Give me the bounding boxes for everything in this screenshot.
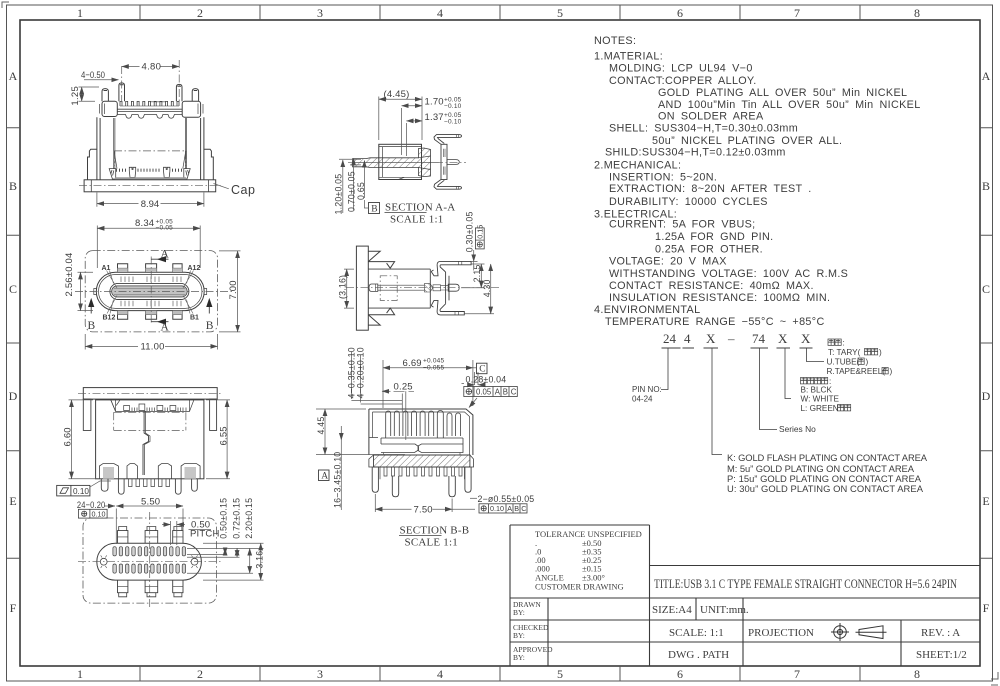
front view latch posts bbox=[129, 167, 135, 177]
section B-B hatched base bbox=[374, 455, 470, 467]
svg-text:SHEET:1/2: SHEET:1/2 bbox=[916, 649, 967, 661]
rear view bottom feet bbox=[99, 464, 200, 479]
side view top chamfer bbox=[368, 251, 380, 261]
dim 0.28 bbox=[462, 372, 479, 385]
top view end notches bbox=[94, 289, 207, 295]
svg-text:5: 5 bbox=[557, 6, 563, 20]
svg-text:SHILD:SUS304−H,T=0.12±0.03mm: SHILD:SUS304−H,T=0.12±0.03mm bbox=[605, 147, 786, 159]
svg-text:6.69: 6.69 bbox=[403, 358, 422, 369]
top view pin leader lines bbox=[107, 271, 194, 314]
svg-text:X: X bbox=[706, 331, 716, 346]
datum A box bbox=[319, 470, 330, 481]
dim 2.15 bbox=[461, 264, 485, 288]
svg-text:A: A bbox=[321, 472, 328, 482]
svg-text:MOLDING: LCP UL94 V−0: MOLDING: LCP UL94 V−0 bbox=[609, 63, 753, 75]
svg-text:2: 2 bbox=[197, 667, 203, 681]
svg-text:4: 4 bbox=[437, 667, 443, 681]
front view base plate bbox=[84, 180, 216, 192]
plating option list bbox=[727, 452, 928, 494]
svg-text:−0.10: −0.10 bbox=[444, 118, 462, 125]
dim 6.69 bbox=[383, 360, 473, 408]
side view body outline bbox=[368, 269, 430, 308]
svg-text:1: 1 bbox=[77, 6, 83, 20]
front view cap tapered sides bbox=[114, 151, 186, 169]
dim (4.45) bbox=[379, 97, 422, 141]
rear view main body bbox=[96, 400, 204, 479]
projection symbol circle-cross bbox=[831, 623, 887, 641]
svg-text:B: B bbox=[503, 387, 508, 396]
top view tongue slot bbox=[112, 286, 188, 297]
section A-A dimensions bbox=[339, 97, 422, 214]
position frame 0.10 ABC bbox=[479, 504, 527, 513]
dim 4.30 bbox=[464, 313, 494, 315]
svg-text:): ) bbox=[890, 367, 893, 376]
top view pin labels bbox=[102, 265, 201, 322]
position frame 0.05 ABC bbox=[464, 387, 518, 397]
svg-text:4: 4 bbox=[437, 6, 443, 20]
svg-text:CONTACT RESISTANCE: 40mΩ MAX.: CONTACT RESISTANCE: 40mΩ MAX. bbox=[609, 280, 814, 292]
svg-text:2.56±0.04: 2.56±0.04 bbox=[64, 253, 75, 297]
dim 11.00 bbox=[85, 334, 217, 350]
section B-B dimensions bbox=[316, 352, 483, 514]
svg-text:2.15: 2.15 bbox=[472, 264, 482, 282]
part number underlines bbox=[661, 348, 824, 455]
dim 0.30 bbox=[471, 260, 477, 262]
top view dim texts bbox=[64, 218, 239, 352]
rear view center divider with zigzag bbox=[143, 411, 149, 475]
side view dimensions bbox=[344, 250, 494, 314]
svg-text:0.25A FOR OTHER.: 0.25A FOR OTHER. bbox=[655, 244, 763, 256]
zone tick lines right bbox=[980, 128, 993, 559]
svg-text:A: A bbox=[507, 504, 512, 513]
svg-text:04-24: 04-24 bbox=[632, 395, 653, 404]
svg-text:C: C bbox=[982, 282, 990, 296]
dim 1.70 bbox=[401, 108, 403, 155]
svg-text:C: C bbox=[479, 365, 485, 375]
section arrow B left bbox=[90, 305, 92, 314]
svg-text:24: 24 bbox=[663, 331, 677, 346]
svg-text:): ) bbox=[866, 358, 869, 367]
dropline from X2 to color list bbox=[785, 348, 791, 399]
corner mark top-left bbox=[2, 2, 9, 8]
svg-text:(4.45): (4.45) bbox=[384, 89, 410, 100]
rear view top bar (cap) bbox=[83, 388, 217, 400]
svg-text:A: A bbox=[161, 322, 170, 334]
dim 1.25 bbox=[81, 87, 83, 101]
side view centerline bbox=[346, 287, 500, 289]
svg-text:50u” NICKEL PLATING OVER ALL.: 50u” NICKEL PLATING OVER ALL. bbox=[652, 135, 842, 147]
rear view small teeth under body bbox=[129, 479, 170, 487]
front view left outer peg bbox=[102, 89, 108, 102]
position frame under 24=0.20 bbox=[78, 509, 107, 518]
rear view cap side tabs bbox=[83, 399, 216, 430]
dim 2.56 bbox=[78, 272, 94, 310]
svg-text:B: B bbox=[982, 179, 990, 193]
notes text block bbox=[594, 35, 921, 328]
svg-text:A: A bbox=[9, 69, 18, 83]
dropline from X1 to plating list bbox=[712, 348, 722, 455]
side view top seam with hook bbox=[368, 262, 394, 269]
svg-text:SCALE 1:1: SCALE 1:1 bbox=[405, 537, 458, 549]
bottom view bottom tabs bbox=[118, 580, 184, 597]
dim 8.34 bbox=[97, 226, 200, 269]
dim 6.60 bbox=[69, 400, 97, 479]
rear view dimensions bbox=[69, 400, 231, 479]
dim 6.55 bbox=[206, 400, 230, 479]
section B-B dim texts bbox=[316, 347, 534, 515]
section A-A title bbox=[385, 202, 455, 226]
dim 5.50 bbox=[116, 505, 183, 507]
side view dim texts bbox=[338, 211, 492, 299]
svg-text:4.30: 4.30 bbox=[482, 279, 492, 297]
section B-B terminal comb bbox=[386, 411, 461, 439]
svg-text:Series No: Series No bbox=[779, 424, 816, 434]
svg-text:1.20±0.05: 1.20±0.05 bbox=[334, 174, 344, 215]
svg-text:SIZE:A4: SIZE:A4 bbox=[652, 604, 692, 616]
dim 4.80 bbox=[122, 66, 180, 68]
rear view dim texts bbox=[63, 426, 230, 446]
bottom view centerlines bbox=[78, 512, 222, 608]
front view module lower wavy edge bbox=[117, 115, 182, 119]
right side dims bbox=[187, 548, 264, 573]
svg-text:AND 100u”Min Tin ALL OVER 50u”: AND 100u”Min Tin ALL OVER 50u” Min NICKE… bbox=[658, 99, 921, 111]
section A-A centerline bbox=[348, 162, 466, 164]
section B-B bottom round pins bbox=[372, 467, 471, 497]
bottom view pin row 2 bbox=[113, 564, 116, 573]
svg-text:E: E bbox=[982, 494, 989, 508]
front view end trapezoids bbox=[109, 169, 116, 179]
svg-text:4−0.20±0.10: 4−0.20±0.10 bbox=[356, 347, 366, 398]
rear view bottom legs bbox=[101, 479, 197, 494]
svg-text:3.16: 3.16 bbox=[255, 551, 265, 569]
front view module top teeth bbox=[120, 101, 179, 106]
svg-text:U.TUBE(: U.TUBE( bbox=[827, 358, 860, 367]
svg-text:UNIT:mm.: UNIT:mm. bbox=[700, 604, 749, 616]
dim 1.37 bbox=[405, 123, 407, 156]
svg-text:DURABILITY: 10000 CYCLES: DURABILITY: 10000 CYCLES bbox=[609, 196, 768, 208]
svg-text:0.72±0.15: 0.72±0.15 bbox=[231, 498, 241, 539]
dim 7.50 bbox=[375, 494, 452, 512]
svg-text:F: F bbox=[10, 601, 17, 615]
svg-text:(3.16): (3.16) bbox=[338, 275, 348, 299]
svg-text:R.TAPE&REEL(: R.TAPE&REEL( bbox=[827, 367, 886, 376]
svg-text:0.50±0.15: 0.50±0.15 bbox=[219, 498, 229, 539]
svg-text:8: 8 bbox=[914, 667, 920, 681]
bottom view dim texts bbox=[77, 497, 265, 569]
side view pin shaft bbox=[378, 285, 425, 290]
side view bottom seam with hook bbox=[368, 308, 394, 315]
rear view dash-dot lines bbox=[78, 393, 222, 430]
dim 24=0.20 leader arrow bbox=[104, 505, 115, 507]
svg-text:1.MATERIAL:: 1.MATERIAL: bbox=[594, 51, 663, 63]
svg-text:3: 3 bbox=[317, 667, 323, 681]
section arrow B right bbox=[208, 305, 210, 314]
svg-text:8: 8 bbox=[914, 6, 920, 20]
svg-text:0.10: 0.10 bbox=[490, 504, 504, 513]
svg-text:2−ø0.55±0.05: 2−ø0.55±0.05 bbox=[478, 494, 535, 504]
dropline from 74 to Series No bbox=[760, 348, 778, 430]
svg-text:0.25: 0.25 bbox=[394, 382, 413, 393]
title block lines bbox=[510, 525, 980, 666]
front view right flange bbox=[204, 149, 213, 180]
svg-text:D: D bbox=[9, 389, 18, 403]
svg-text:SCALE 1:1: SCALE 1:1 bbox=[390, 214, 443, 226]
svg-text:DWG . PATH: DWG . PATH bbox=[668, 649, 729, 661]
rear view top inner latches bbox=[111, 400, 194, 412]
size/unit/scale/dwg cells bbox=[652, 604, 967, 661]
front view dash-dot centerlines bbox=[79, 60, 221, 186]
dim 0.50 pitch: extension lines bbox=[170, 521, 176, 545]
svg-text:7.00: 7.00 bbox=[228, 280, 239, 299]
side view bracket top arm bbox=[431, 261, 471, 275]
svg-text:L: GREEN: L: GREEN bbox=[801, 404, 839, 413]
part number heading 24 4 X - 74 X X bbox=[663, 331, 811, 346]
svg-text:C: C bbox=[9, 282, 17, 296]
datum C box bbox=[477, 363, 488, 374]
svg-text:PITCH: PITCH bbox=[190, 529, 220, 540]
svg-text:BY:: BY: bbox=[513, 608, 525, 617]
svg-text:): ) bbox=[879, 348, 882, 357]
flatness leader bbox=[90, 481, 111, 487]
front view right big pin bbox=[176, 84, 182, 101]
svg-text:WITHSTANDING VOLTAGE: 100V AC: WITHSTANDING VOLTAGE: 100V AC R.M.S bbox=[609, 268, 848, 280]
front view top shield module right block bbox=[182, 101, 200, 117]
svg-text:X: X bbox=[801, 331, 811, 346]
svg-text:7: 7 bbox=[794, 667, 800, 681]
svg-text:0.15: 0.15 bbox=[476, 225, 485, 239]
svg-text:X: X bbox=[778, 331, 788, 346]
side view contact pieces bbox=[424, 284, 433, 292]
side view hidden cap dash-dot rect bbox=[380, 276, 397, 301]
svg-text:4: 4 bbox=[684, 331, 691, 346]
svg-text:B: B bbox=[371, 205, 377, 215]
top view outer stadium shell bbox=[96, 272, 204, 310]
svg-text:F: F bbox=[983, 601, 990, 615]
svg-text:1.37: 1.37 bbox=[425, 112, 444, 123]
svg-text:8.94: 8.94 bbox=[141, 199, 160, 210]
svg-text:−0.05: −0.05 bbox=[156, 225, 174, 232]
svg-text:PIN NO:: PIN NO: bbox=[632, 385, 662, 394]
cap leader bbox=[214, 184, 229, 189]
svg-text:B: BLCK: B: BLCK bbox=[801, 386, 833, 395]
top view bottom tabs bbox=[118, 311, 183, 319]
svg-text:SECTION A-A: SECTION A-A bbox=[385, 202, 455, 214]
svg-text:6: 6 bbox=[677, 6, 683, 20]
svg-text:BY:: BY: bbox=[513, 653, 525, 662]
packing list text bbox=[801, 339, 893, 414]
section arrow A top bbox=[151, 259, 168, 322]
svg-text:1: 1 bbox=[77, 667, 83, 681]
section B-B title bbox=[400, 525, 470, 549]
front view right outer peg bbox=[192, 89, 198, 102]
svg-text:74: 74 bbox=[752, 331, 766, 346]
dim (3.16) bbox=[344, 269, 354, 308]
svg-text:7: 7 bbox=[794, 6, 800, 20]
svg-text:5.50: 5.50 bbox=[141, 497, 160, 508]
bottom view top tabs bbox=[118, 527, 184, 544]
svg-text:T: TARY(: T: TARY( bbox=[828, 348, 861, 357]
dim 8.94 bbox=[97, 193, 204, 207]
section B-B outer shell bbox=[369, 409, 473, 455]
svg-text::: : bbox=[843, 339, 845, 348]
svg-text:3: 3 bbox=[317, 6, 323, 20]
section A-A top leg bbox=[434, 135, 462, 145]
projection symbol cone bbox=[856, 626, 887, 639]
CJK pseudo glyphs: 包装 bbox=[828, 339, 834, 345]
svg-text:0.70±0.05: 0.70±0.05 bbox=[346, 171, 356, 212]
side view bottom chamfer bbox=[368, 315, 380, 325]
svg-text:INSERTION: 5~20N.: INSERTION: 5~20N. bbox=[609, 172, 717, 184]
svg-text:6.60: 6.60 bbox=[63, 427, 74, 446]
svg-text:C: C bbox=[521, 504, 526, 513]
绿色 after GREEN bbox=[838, 405, 844, 411]
svg-text:A12: A12 bbox=[188, 265, 201, 272]
bottom view pin row 1 bbox=[113, 547, 186, 574]
svg-text:TEMPERATURE RANGE −55°C ~ +85°: TEMPERATURE RANGE −55°C ~ +85°C bbox=[605, 316, 825, 328]
svg-text:U: 30u” GOLD PLATING ON CONTAC: U: 30u” GOLD PLATING ON CONTACT AREA bbox=[727, 483, 924, 494]
section A-A tongue centerline bbox=[353, 162, 439, 164]
svg-text:0.05: 0.05 bbox=[476, 387, 492, 396]
svg-text:SHELL: SUS304−H,T=0.30±0.03mm: SHELL: SUS304−H,T=0.30±0.03mm bbox=[609, 123, 798, 135]
front view lower teeth dashes bbox=[117, 169, 182, 172]
svg-text:0.65: 0.65 bbox=[356, 182, 366, 200]
svg-text:6: 6 bbox=[677, 667, 683, 681]
svg-text:5: 5 bbox=[557, 667, 563, 681]
svg-text:B1: B1 bbox=[190, 315, 199, 322]
front view left flange bbox=[88, 149, 97, 180]
svg-text:B: B bbox=[88, 320, 96, 332]
svg-text:GOLD PLATING ALL OVER 50u” Min: GOLD PLATING ALL OVER 50u” Min NICKEL bbox=[658, 87, 907, 99]
top view centerlines bbox=[75, 257, 232, 326]
front view top shield module left block bbox=[102, 101, 117, 116]
svg-text:4−0.50: 4−0.50 bbox=[81, 70, 105, 81]
svg-text:1.70: 1.70 bbox=[425, 97, 444, 108]
svg-text:+0.045: +0.045 bbox=[423, 358, 444, 365]
svg-text:−0.10: −0.10 bbox=[444, 103, 462, 110]
svg-text:Cap: Cap bbox=[231, 183, 255, 197]
svg-text:–: – bbox=[727, 331, 735, 346]
盘子 in TARY() bbox=[865, 349, 871, 355]
svg-text:1.25A FOR GND PIN.: 1.25A FOR GND PIN. bbox=[655, 231, 774, 243]
svg-text:0.10: 0.10 bbox=[92, 510, 106, 519]
bottom view dimensions bbox=[104, 506, 264, 580]
side view bracket bottom arm bbox=[431, 300, 464, 315]
section B-B left wall detail bbox=[369, 412, 378, 438]
svg-text:E: E bbox=[9, 494, 16, 508]
svg-text:0.28±0.04: 0.28±0.04 bbox=[466, 374, 507, 384]
svg-text:A: A bbox=[161, 249, 170, 261]
svg-text:D: D bbox=[982, 389, 991, 403]
section A-A center pin bbox=[447, 160, 459, 165]
dims 4-0.35 / 4-0.20 bbox=[351, 401, 402, 405]
svg-text:W: WHITE: W: WHITE bbox=[801, 395, 840, 404]
胶芯颜色 bbox=[801, 378, 807, 384]
left dims 1.20 / 0.70 / 0.65 bbox=[339, 159, 361, 165]
svg-text:A1: A1 bbox=[102, 265, 111, 272]
section B-B bottom teeth row bbox=[380, 467, 465, 479]
dim 16=3.45 bbox=[340, 440, 342, 510]
svg-text:TITLE:USB 3.1 C TYPE FEMALE ST: TITLE:USB 3.1 C TYPE FEMALE STRAIGHT CON… bbox=[654, 577, 957, 591]
svg-text:SECTION B-B: SECTION B-B bbox=[400, 525, 470, 537]
svg-text:A: A bbox=[495, 387, 501, 396]
section B-B mid housing with zigzag bbox=[381, 438, 463, 444]
svg-text:B: B bbox=[9, 179, 17, 193]
svg-text:SCALE: 1:1: SCALE: 1:1 bbox=[669, 627, 724, 639]
svg-text:8.34: 8.34 bbox=[135, 218, 154, 229]
svg-text:K: GOLD FLASH PLATING ON CONTA: K: GOLD FLASH PLATING ON CONTACT AREA bbox=[727, 452, 928, 463]
side view pin bullet left bbox=[369, 284, 378, 291]
svg-text:7.50: 7.50 bbox=[414, 504, 433, 515]
section A-A bottom leg bbox=[434, 180, 462, 190]
svg-text:4.80: 4.80 bbox=[142, 62, 162, 73]
side view bracket vertical bbox=[446, 272, 449, 304]
svg-text:16−3.45±0.10: 16−3.45±0.10 bbox=[333, 452, 343, 508]
front view dimensions bbox=[79, 62, 229, 209]
svg-text:2.20±0.15: 2.20±0.15 bbox=[244, 498, 254, 539]
svg-text:NOTES:: NOTES: bbox=[594, 35, 636, 47]
front view dim texts bbox=[70, 62, 256, 210]
svg-text:EXTRACTION: 8~20N AFTER TEST .: EXTRACTION: 8~20N AFTER TEST . bbox=[609, 183, 812, 195]
dropline from X3 to packing list bbox=[807, 348, 825, 362]
dim 2-0.55 leader bbox=[470, 497, 477, 499]
svg-text:A: A bbox=[982, 69, 991, 83]
dim 4=0.50 leader bbox=[84, 79, 119, 81]
dim 4.45 bbox=[316, 409, 405, 455]
section A-A dim texts bbox=[334, 89, 462, 215]
svg-text:−0.055: −0.055 bbox=[423, 365, 444, 372]
side view right bullet bbox=[448, 284, 459, 291]
管 in TUBE() bbox=[858, 358, 864, 364]
svg-text:4.ENVIRONMENTAL: 4.ENVIRONMENTAL bbox=[594, 304, 700, 316]
svg-text:PROJECTION: PROJECTION bbox=[748, 627, 814, 639]
section A-A right bracket plate bbox=[441, 144, 447, 179]
svg-text:2.MECHANICAL:: 2.MECHANICAL: bbox=[594, 160, 681, 172]
side view cap plate bbox=[356, 246, 368, 330]
bottom view end circles bbox=[100, 558, 107, 565]
section A-A shell body bbox=[379, 144, 422, 179]
bottom view phantom rounded rect bbox=[83, 518, 216, 603]
front view module rails bbox=[117, 109, 182, 111]
svg-text:0.30±0.05: 0.30±0.05 bbox=[464, 211, 474, 252]
corner mark bottom-right bbox=[991, 672, 998, 685]
zone tick lines bottom bbox=[140, 666, 860, 681]
svg-text:ON SOLDER AREA: ON SOLDER AREA bbox=[658, 111, 764, 123]
dim 0.25 bbox=[394, 390, 415, 392]
svg-text:2: 2 bbox=[197, 6, 203, 20]
svg-text:11.00: 11.00 bbox=[141, 341, 165, 352]
PIN NO label bbox=[632, 385, 662, 404]
top view inner contact details bbox=[121, 277, 181, 307]
svg-text:B: B bbox=[514, 504, 519, 513]
section letters bbox=[88, 249, 214, 334]
svg-text:CONTACT:COPPER ALLOY.: CONTACT:COPPER ALLOY. bbox=[609, 75, 757, 87]
svg-text:INSULATION RESISTANCE: 100MΩ M: INSULATION RESISTANCE: 100MΩ MIN. bbox=[609, 292, 830, 304]
svg-text:0.10: 0.10 bbox=[73, 487, 89, 496]
top view dimensions bbox=[78, 226, 241, 351]
signature labels bbox=[513, 600, 553, 662]
dropline from 24 to PIN NO bbox=[661, 348, 668, 390]
svg-text:B: B bbox=[206, 320, 214, 332]
front view outer walls bbox=[97, 117, 204, 180]
front view inner walls bbox=[114, 118, 187, 169]
svg-text:1.25: 1.25 bbox=[70, 86, 81, 106]
svg-text:B12: B12 bbox=[103, 315, 116, 322]
svg-text:C: C bbox=[511, 387, 517, 396]
tolerance table text bbox=[535, 529, 642, 592]
svg-text:4.45: 4.45 bbox=[316, 417, 326, 435]
flatness callout box bbox=[57, 485, 90, 496]
section A-A tongue hatched bbox=[353, 148, 431, 177]
